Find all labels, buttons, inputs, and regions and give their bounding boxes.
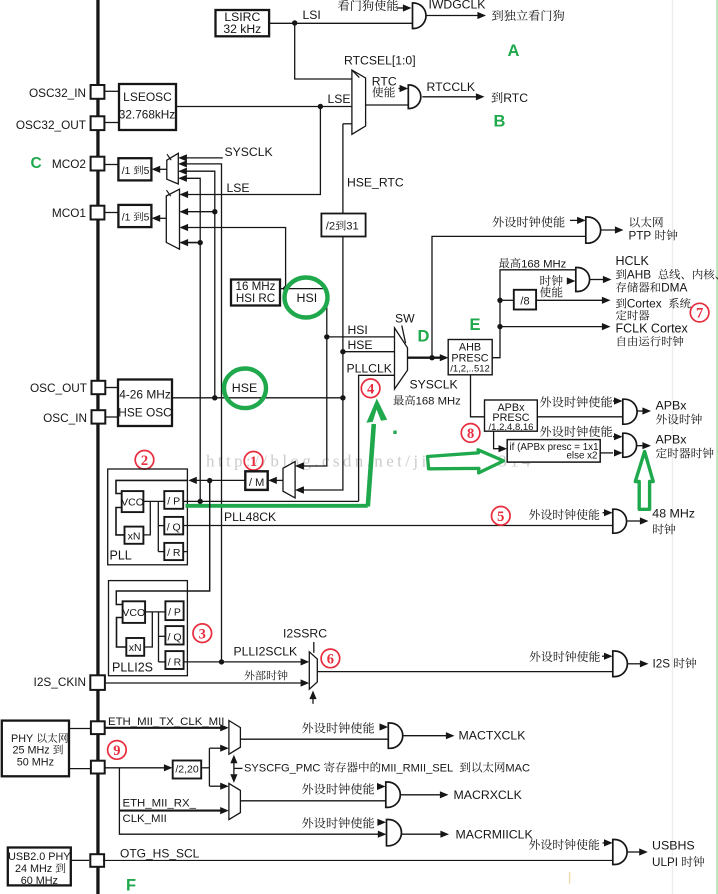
and-gate 48MHz (613, 509, 627, 533)
wire OTG_HS_SCL (103, 859, 613, 861)
divider PLLI2S /R box (165, 651, 183, 669)
svg-text:Cortex: Cortex (627, 297, 662, 311)
label HSI sw (348, 323, 368, 337)
prescaler APBx box (485, 400, 538, 433)
svg-text:HSI: HSI (348, 323, 368, 337)
mux ETH TX (229, 721, 241, 755)
and-gate MACRXCLK (386, 782, 401, 807)
block PLLI2S VCO box (122, 601, 145, 623)
node HCLK div8 tap (497, 298, 502, 303)
svg-text:B: B (494, 113, 506, 131)
wire pll distribution (158, 501, 164, 551)
annotation circled 2 (135, 451, 154, 470)
svg-text:/ M: / M (249, 477, 265, 489)
block PHY ethernet box (2, 721, 69, 777)
svg-text:PHY: PHY (11, 733, 33, 745)
divider PLLI2S /Q box (165, 626, 183, 644)
wire i2s mux bottom arrow (309, 691, 316, 704)
label clock enable hclk (540, 275, 563, 297)
svg-text:MII_RMII_SEL: MII_RMII_SEL (381, 763, 453, 775)
svg-text:MAC: MAC (505, 763, 530, 775)
label HSI circled (297, 291, 318, 305)
block PLLI2S outer box (109, 581, 188, 676)
pin MCO1 (52, 206, 104, 220)
annotation green hollow right-arrow (428, 450, 504, 473)
svg-text:VCO: VCO (122, 607, 145, 619)
pin OSC32_IN (29, 85, 104, 100)
svg-text:25 MHz: 25 MHz (13, 745, 50, 757)
wire apb timer output (637, 442, 651, 449)
wire apb enable arrow 1 (613, 397, 623, 404)
svg-text:C: C (31, 155, 42, 172)
pin ETH TX (91, 721, 105, 734)
and-gate RTC (408, 85, 421, 109)
svg-text:/2: /2 (326, 221, 335, 233)
annotation letter D (418, 328, 430, 346)
label I2SSRC (283, 627, 327, 641)
wire PLL R stub (183, 551, 187, 553)
wire eth tx to mux (105, 724, 229, 731)
wire ptp output (600, 226, 624, 233)
svg-text:/ R: / R (167, 547, 181, 559)
svg-text:5: 5 (144, 212, 150, 223)
svg-text:/ Q: / Q (167, 632, 181, 644)
watermark text (206, 452, 534, 471)
wire IWDG enable arrow (397, 4, 412, 11)
svg-text:9: 9 (113, 743, 120, 759)
label PLLI2S (112, 661, 153, 675)
svg-text:/ P: / P (168, 607, 181, 619)
wire phy to pin2 (69, 768, 91, 770)
svg-text:1: 1 (250, 454, 257, 470)
svg-text:LSI: LSI (303, 8, 321, 22)
wire IWDGCLK output (427, 12, 487, 19)
svg-text:HSI: HSI (297, 291, 318, 305)
label HCLK block (616, 254, 718, 295)
and-gate IWDG (413, 3, 426, 29)
label RTC enable (372, 75, 397, 98)
node MCO1 HSE tap (212, 209, 217, 214)
wire usbhs enable arrow (603, 839, 613, 846)
annotation circled 9 (108, 741, 127, 760)
annotation circled 3 (193, 624, 212, 643)
annotation green circle HSE (224, 369, 266, 409)
svg-text:RTC: RTC (372, 75, 397, 89)
label SYSCLK mco (225, 145, 273, 159)
pin OTG_HS (90, 854, 104, 867)
label HSE circled (232, 381, 257, 395)
wire plli2s vco out (145, 611, 165, 613)
wire pll input inner (116, 480, 187, 493)
svg-text:HSE OSC: HSE OSC (118, 406, 172, 420)
divider PLL /R box (164, 543, 183, 560)
svg-text:31: 31 (346, 221, 358, 233)
label SYSCFG_PMC MII_RMII_SEL (244, 762, 530, 775)
svg-text:7: 7 (696, 306, 703, 322)
annotation letter E (470, 316, 481, 334)
wire pll vco out (143, 500, 164, 502)
svg-text:/1,2,4,8,16: /1,2,4,8,16 (489, 422, 534, 433)
wire M output to PLL (188, 477, 245, 484)
wire MCO1 input HSE (180, 208, 215, 215)
svg-text:OTG_HS_SCL: OTG_HS_SCL (120, 847, 200, 861)
svg-text:SYSCLK: SYSCLK (225, 145, 273, 159)
wire RTCCLK output (422, 93, 484, 100)
and-gate APBx peripheral (623, 399, 637, 424)
and-gate APBx timer (623, 433, 637, 457)
svg-text:MACRXCLK: MACRXCLK (454, 788, 523, 802)
divider /M box (245, 471, 267, 490)
label I2S clock (653, 658, 697, 671)
wire usbhs output (627, 848, 648, 855)
wire MCO2 input HSE riser (178, 168, 215, 398)
pin OSC_IN (43, 410, 105, 425)
svg-text:6: 6 (327, 652, 334, 668)
label PLLCLK (347, 362, 392, 376)
svg-text:50 MHz: 50 MHz (17, 757, 54, 769)
svg-text:4-26 MHz: 4-26 MHz (119, 388, 171, 402)
label to RTC (492, 91, 529, 105)
label OTG_HS_SCL (120, 847, 200, 861)
node plli2s mco tap (219, 659, 224, 664)
svg-text:I2S_CKIN: I2S_CKIN (34, 675, 86, 689)
svg-text:A: A (508, 42, 520, 60)
svg-text:HSE_RTC: HSE_RTC (347, 176, 404, 190)
label USBHS (652, 839, 704, 870)
divider PLLI2S /P box (165, 601, 183, 620)
label RTCCLK (427, 80, 476, 94)
label ethernet PTP (629, 217, 678, 243)
svg-text:168 MHz: 168 MHz (416, 396, 462, 408)
svg-text:/1: /1 (122, 166, 131, 177)
wire MCO1 mux output (152, 215, 167, 222)
label SYSCLK (410, 378, 458, 392)
wire i2s mux select (313, 642, 315, 653)
svg-text:HSE: HSE (232, 381, 257, 395)
label FCLK (616, 322, 689, 347)
wire eth mux1 output (240, 738, 388, 740)
svg-text:/1,2,..512: /1,2,..512 (450, 364, 490, 375)
wire pll feedback (116, 508, 125, 535)
annotation green line and up-arrow (186, 399, 388, 507)
svg-text:OSC32_OUT: OSC32_OUT (16, 118, 86, 132)
wire OSC_IN stub (105, 416, 118, 418)
block USB PHY box (8, 848, 71, 888)
pin ETH RX (91, 761, 105, 774)
svg-text:/2,20: /2,20 (175, 764, 199, 776)
mux MCO2 (167, 153, 179, 184)
label usbhs enable (529, 839, 599, 850)
label PLLI2SCLK (234, 645, 298, 659)
wire apb periph output (637, 407, 651, 414)
svg-text:xN: xN (129, 642, 142, 654)
node MCO1 PLL tap (198, 240, 203, 245)
node LSI junction (292, 20, 297, 25)
node HSI mco tap (283, 286, 288, 291)
svg-text:SYSCFG_PMC: SYSCFG_PMC (244, 763, 320, 775)
svg-text:48 MHz: 48 MHz (652, 507, 695, 521)
svg-text:/8: /8 (520, 296, 529, 308)
svg-text:xN: xN (128, 531, 141, 543)
wire pll mux in HSI arrow (295, 462, 304, 469)
wire MCO2 mux output (152, 166, 167, 173)
label IWDGCLK (429, 0, 486, 12)
label ETH_MII_RX (123, 798, 197, 826)
svg-text:LSEOSC: LSEOSC (123, 90, 172, 104)
label PLL (110, 549, 132, 563)
svg-text:2: 2 (141, 453, 148, 469)
wire 48m enable arrow (603, 509, 613, 516)
wire HSE_RTC riser (295, 124, 352, 494)
wire SYSCLK to PTP gate (432, 236, 586, 357)
svg-text:IWDGCLK: IWDGCLK (429, 0, 486, 12)
svg-text:PLL48CK: PLL48CK (224, 510, 276, 524)
wire macrx enable arrow (377, 783, 386, 790)
svg-text:AHB: AHB (627, 268, 651, 282)
block PLL outer box (108, 469, 188, 565)
block PLLI2S xN box (126, 638, 144, 656)
svg-text:8: 8 (467, 426, 474, 442)
svg-text:ULPI: ULPI (652, 856, 678, 869)
wire LSE branch to MCO1 mux (180, 107, 321, 199)
oscillator HSE OSC box (118, 380, 172, 427)
label mactx enable (302, 722, 374, 733)
label max 168MHz hclk (499, 258, 567, 271)
wire PLL48CK from Q (183, 525, 613, 527)
annotation letter A (508, 42, 520, 60)
wire I2S mux output (317, 671, 613, 673)
svg-text:E: E (470, 316, 481, 334)
label MACTXCLK (459, 729, 527, 743)
wire SYSCLK output of SW mux (408, 354, 449, 361)
annotation circled 6 (321, 649, 340, 668)
svg-text:24 MHz: 24 MHz (15, 863, 52, 875)
svg-text:MACRMIICLK: MACRMIICLK (456, 828, 534, 842)
annotation circled 1 (244, 452, 263, 471)
label 48m enable (529, 509, 599, 520)
wire MCO2 input SYSCLK (178, 154, 223, 161)
label LSE mco (227, 181, 250, 195)
wire divider out riser (201, 745, 229, 790)
svg-text:HSI RC: HSI RC (236, 292, 275, 305)
svg-text:ETH_MII_RX_: ETH_MII_RX_ (123, 798, 197, 810)
oscillator HSI RC box (231, 280, 280, 306)
wire eth rx to divider (105, 764, 173, 771)
label 48 MHz clock (652, 507, 695, 535)
mux I2S (309, 652, 317, 689)
svg-text:PLLCLK: PLLCLK (347, 362, 392, 376)
wire pll mux to M (268, 477, 283, 484)
label to independent watchdog (492, 10, 564, 21)
block PLL xN box (125, 527, 144, 544)
logic if-APBx box (507, 440, 600, 463)
mux ETH RX (229, 783, 241, 819)
label to cortex systick (616, 297, 691, 321)
wire ptp enable arrow (570, 217, 586, 224)
svg-text:5: 5 (144, 166, 150, 177)
svg-text:4: 4 (367, 381, 374, 397)
wire MCO2 stub (104, 164, 118, 166)
wire external I2S clock (105, 679, 310, 686)
wire M branch to PLLI2S (116, 481, 209, 605)
and-gate USBHS (613, 840, 627, 865)
svg-text:OSC_OUT: OSC_OUT (30, 381, 87, 395)
svg-text:APBx: APBx (656, 399, 688, 413)
svg-text:MACTXCLK: MACTXCLK (459, 729, 527, 743)
pin OSC32_OUT (16, 116, 105, 132)
prescaler AHB box (448, 340, 492, 375)
wire HCLK output (590, 276, 612, 283)
svg-text:SYSCLK: SYSCLK (410, 378, 458, 392)
label macrmii enable (302, 817, 374, 828)
oscillator LSIRC box (216, 10, 270, 37)
annotation circled 5 (492, 507, 511, 526)
and-gate HCLK (576, 268, 590, 292)
label SW (395, 312, 415, 326)
wire APBx output (537, 416, 623, 418)
svg-text:APBx: APBx (656, 433, 688, 447)
annotation circled 7 (690, 303, 709, 322)
label watchdog clock enable (338, 0, 398, 11)
label apb enable 2 (540, 426, 612, 437)
wire MCO1 input PLL (180, 239, 201, 246)
chip boundary line (96, 0, 99, 894)
and-gate ETH PTP (586, 217, 601, 243)
label ptp enable (492, 216, 564, 227)
mux MCO1 (166, 189, 179, 249)
wire div8 input (500, 299, 514, 301)
label PLL48CK (224, 510, 276, 524)
annotation letter C (31, 155, 42, 172)
label MACRMIICLK (456, 828, 534, 842)
wire eth rx clk mii (119, 807, 228, 814)
label HSE_RTC (347, 176, 404, 190)
node M output branch (207, 478, 212, 483)
svg-text:RTCSEL[1:0]: RTCSEL[1:0] (344, 54, 416, 68)
annotation green hollow up-arrow (635, 452, 653, 510)
label APBx timer clock (656, 433, 714, 459)
wire 48m output (627, 517, 648, 524)
wire i2s enable arrow (602, 653, 613, 660)
node LSE junction (318, 104, 323, 109)
svg-text:MCO1: MCO1 (52, 206, 86, 220)
divider /2,20 box (173, 761, 202, 779)
wire PLLCLK to SW mux (359, 375, 395, 501)
node pll p mco tap (198, 499, 203, 504)
wire phy to pin1 (69, 728, 91, 730)
wire RTC enable arrow (399, 85, 409, 92)
wire mactx output (403, 732, 455, 739)
divider /2to31 box (321, 214, 365, 237)
label LSE top (328, 92, 351, 106)
divider MCO2 /1to5 box (118, 158, 151, 180)
mux PLL source (283, 462, 295, 498)
wire i2s output (627, 660, 648, 667)
svg-text:60 MHz: 60 MHz (21, 875, 58, 887)
svg-text:DMA: DMA (661, 281, 687, 295)
svg-text:LSE: LSE (227, 181, 250, 195)
label APBx peripheral clock (656, 399, 702, 425)
svg-text:SW: SW (395, 312, 415, 326)
svg-text:PTP: PTP (629, 230, 652, 243)
node HSI sw tap (324, 334, 329, 339)
label apb enable 1 (540, 396, 612, 407)
wire plli2s distribution (159, 612, 166, 662)
wire eth rx branch (119, 768, 386, 838)
label macrx enable (302, 783, 374, 794)
svg-text:168 MHz: 168 MHz (521, 258, 567, 270)
svg-text:HCLK: HCLK (616, 254, 650, 268)
wire apb enable arrow 2 (613, 433, 623, 440)
svg-text:FCLK Cortex: FCLK Cortex (616, 322, 689, 336)
wire HSI to SW mux (327, 336, 395, 338)
divider PLL /P box (164, 491, 183, 509)
label MACRXCLK (454, 788, 523, 802)
wire LSI branch to RTC mux (295, 23, 352, 79)
svg-text:/ Q: / Q (167, 522, 181, 534)
wire syscfg select updown (230, 755, 242, 783)
svg-text:MCO2: MCO2 (52, 157, 86, 171)
svg-text:/ R: / R (168, 657, 182, 669)
svg-text:/ P: / P (167, 496, 180, 508)
svg-text:3: 3 (199, 626, 206, 642)
and-gate MACTXCLK (388, 723, 402, 748)
wire HSI line (280, 289, 327, 470)
block PLL VCO box (121, 491, 144, 512)
wire HSE line (172, 397, 343, 399)
label external clock (244, 670, 287, 680)
svg-text:PLLI2SCLK: PLLI2SCLK (234, 645, 298, 659)
mux SW (395, 326, 408, 390)
label RTCSEL (344, 54, 416, 68)
wire APBx to if box (494, 431, 508, 452)
wire AHB to APBx (471, 375, 485, 417)
wire mactx enable arrow (380, 723, 389, 730)
divider /8 box (514, 290, 536, 310)
wire hclk enable arrow (567, 277, 576, 284)
svg-text:HSE: HSE (348, 338, 373, 352)
annotation letter B (494, 113, 506, 131)
svg-text:USB2.0 PHY: USB2.0 PHY (8, 851, 70, 863)
wire MCO1 stub (104, 212, 118, 214)
wire plli2s feedback (117, 618, 127, 648)
wire pll xN out (143, 501, 150, 535)
wire HSE to SW mux (343, 351, 395, 353)
node HSE into SW mux (340, 349, 345, 354)
oscillator LSEOSC box (119, 84, 176, 130)
svg-text:VCO: VCO (121, 497, 144, 509)
wire PLLI2SCLK (184, 658, 310, 665)
wire macrmii enable arrow (377, 819, 386, 826)
annotation circled 4 (361, 379, 380, 398)
pin I2S_CKIN (34, 675, 105, 690)
svg-text:ETH_MII_TX_CLK_MII: ETH_MII_TX_CLK_MII (108, 716, 224, 728)
svg-text:32 kHz: 32 kHz (223, 22, 261, 36)
svg-text:LSE: LSE (328, 92, 351, 106)
and-gate I2S (613, 651, 628, 677)
wire PLLCLK from P (183, 500, 358, 502)
svg-text:D: D (418, 328, 430, 346)
divider MCO1 /1to5 box (118, 205, 151, 227)
wire if box output (600, 449, 622, 456)
node SYSCLK ptp tap (429, 355, 434, 360)
mux RTCSEL (352, 70, 366, 134)
annotation green dot (393, 431, 396, 434)
svg-text:PLL: PLL (110, 549, 132, 563)
wire usb to pin (71, 859, 89, 861)
label i2s enable (529, 651, 599, 662)
svg-text:OSC32_IN: OSC32_IN (29, 86, 86, 100)
